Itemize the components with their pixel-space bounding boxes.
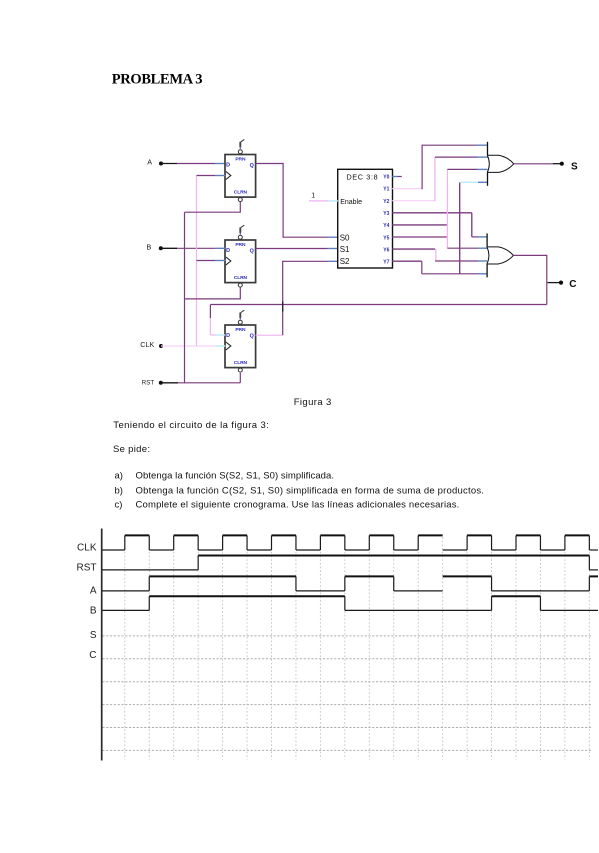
svg-text:Enable: Enable [340,199,362,206]
wire OR-S input4 stub (blue) [478,181,487,183]
wire U3.Q (pink) [256,334,283,336]
D flip-flop U1 [225,150,256,202]
svg-text:S: S [571,161,578,172]
node B input dot [159,246,163,250]
wire G1 output (purple) [514,163,553,165]
wire CLK distribution vertical (pink) [196,176,198,347]
wire enable constant (pink) [309,200,328,202]
wire A to U1.D (purple) [177,163,215,165]
wire RST riser to U3 CLRN [239,373,241,383]
svg-text:C: C [569,279,576,290]
D flip-flop U3 [225,320,256,372]
wire Y2 out (pink) [392,200,435,202]
wire OR-C input2 stub (blue) [478,247,487,249]
svg-text:1: 1 [311,192,315,199]
wire U3.D stub (cyan) [216,334,226,336]
or-gate G2 (C) [487,233,514,277]
wire U3.Q riser to S2 [282,261,284,336]
wire U1.Q to S0 [256,164,328,238]
wire Y7 to OR-C input4 [422,273,478,275]
wire Y1 out (pink) [392,188,422,190]
wire Y7 jog down [421,261,423,274]
svg-text:DEC 3:8: DEC 3:8 [346,172,378,181]
wire CLK branch stub U1 (blue) [215,175,225,177]
wire CLK branch to U1 clock [197,175,216,177]
wire to OR-C input2 [447,247,478,249]
wire Y6 jog down (pink) [435,249,437,261]
timing grid horizontal dashed lines [102,636,591,751]
wire Y6 out [392,248,435,250]
svg-text:Y3: Y3 [383,211,389,217]
timing labels [77,543,97,661]
VCC preset tick above U1 [240,140,244,149]
svg-text:Y1: Y1 [383,187,389,193]
svg-text:Teniendo el circuito de la fig: Teniendo el circuito de la figura 3: [113,420,269,431]
svg-text:Y4: Y4 [383,223,389,229]
node CLK input dot [159,344,163,348]
waveform CLK [103,535,599,550]
wire OR-C input1 stub (blue) [478,236,487,238]
wire Y4/Y5 shared vertical (pink) [446,169,448,248]
waveform RST [103,556,599,570]
svg-text:Y0: Y0 [383,175,389,181]
wire S2 horizontal [283,260,328,262]
wire Y1 to OR-S input1 [422,144,477,146]
wire C feedback drop (purple then pink) [209,305,211,319]
svg-text:S0: S0 [340,234,350,243]
wire CLK branch stub U2 (blue) [215,260,225,262]
wire OR-S input3 stub (blue) [477,168,488,170]
svg-text:Y2: Y2 [383,199,389,205]
wire OR-S input1 stub (blue) [477,144,488,146]
wire B pin stub (blue) [215,247,225,249]
VCC preset tick above U2 [240,225,244,234]
wire C feedback horizontal [210,304,546,306]
svg-text:S: S [90,630,97,641]
timing grid vertical dashed lines [125,537,590,760]
wire S2 pin stub (blue) [328,260,339,262]
node A input dot [159,162,163,166]
svg-text:Obtenga la función S(S2, S1, S: Obtenga la función S(S2, S1, S0) simplif… [136,470,335,481]
wire B to U2.D (purple) [177,247,215,249]
svg-text:PROBLEMA 3: PROBLEMA 3 [112,71,202,87]
svg-text:Complete el siguiente cronogra: Complete el siguiente cronograma. Use la… [136,499,460,510]
wire Y4 stub out [392,224,447,226]
wire Y2 riser (pink) [434,157,436,201]
wire A lead-in (black) [161,163,177,165]
wire Y7 tap vertical to OR-S input4 [459,182,461,273]
svg-text:B: B [90,605,97,616]
wire G2 output to corner [513,255,546,304]
wire clear net vertical [184,212,186,383]
wire Y0 stub [392,176,397,178]
svg-text:A: A [147,157,152,166]
node S output dot [560,162,564,166]
wire enable stub (cyan) [328,200,339,202]
wire Y3 drop to OR-C input1 [471,213,473,237]
svg-text:Y6: Y6 [383,247,389,253]
waveform A [103,576,599,591]
wire S lead-out (black) [553,163,560,165]
wire CLK stub into U3 clock (cyan) [215,345,225,347]
wire RST horizontal (purple) [178,382,240,384]
wire Y7 out [392,260,422,262]
svg-text:b): b) [115,485,123,496]
svg-text:S2: S2 [340,257,350,266]
wire U2 CLRN to clear net [185,287,241,299]
wire CLK horizontal (pink) [161,345,215,347]
wire C feedback into U3.D (pink) [210,334,215,336]
timing axis vertical line [101,529,103,761]
svg-text:c): c) [115,499,123,510]
svg-text:a): a) [115,470,123,481]
wire U2.Q to S1 [256,248,328,250]
wire A pin stub (blue) [215,163,225,165]
VCC preset tick above U3 [240,310,244,319]
wire Y3 to OR-C input1 [472,236,478,238]
wire OR-C input3 stub (blue) [478,260,487,262]
junction artifact on S2 riser [282,302,284,312]
svg-text:RST: RST [142,380,155,387]
D flip-flop U2 [225,235,256,287]
svg-text:S1: S1 [340,245,350,254]
wire to OR-S input4 (cyan) [460,181,478,183]
wire U1 CLRN to clear net [185,202,241,213]
svg-text:Y7: Y7 [383,260,389,266]
wire B lead-in (black) [161,247,178,249]
svg-text:B: B [146,243,151,252]
svg-text:CLK: CLK [77,543,97,554]
svg-text:Obtenga la función C(S2, S1, S: Obtenga la función C(S2, S1, S0) simplif… [136,485,485,496]
or-gate G1 (S) [487,142,514,186]
wire CLK branch to U2 clock [197,260,216,262]
node RST input dot [159,381,163,385]
wire Y2 to OR-S input2 [435,156,477,158]
svg-text:C: C [89,650,96,661]
decoder U4 DEC 3:8 [338,169,393,268]
svg-text:RST: RST [77,562,97,573]
waveform B [103,596,599,610]
svg-text:CLK: CLK [140,340,154,349]
wire to OR-S input3 [447,168,477,170]
wire Y3 out [392,212,472,214]
wire RST lead-in (black) [161,382,178,384]
node C output dot [559,281,563,285]
wire Y6 to OR-C input3 [435,260,478,262]
wire Y1 riser [421,145,423,190]
wire C lead-out (black) [548,282,559,284]
wire S0 pin stub (blue) [328,236,339,238]
wire OR-S input2 stub (blue) [477,156,488,158]
svg-text:A: A [90,586,97,597]
wire Y5 stub out [392,236,447,238]
wire S1 pin stub (blue) [328,248,339,250]
svg-text:Figura 3: Figura 3 [294,397,332,408]
wire OR-C input4 stub (blue) [478,273,487,275]
svg-text:Y5: Y5 [383,235,389,241]
svg-text:Se pide:: Se pide: [113,444,150,455]
